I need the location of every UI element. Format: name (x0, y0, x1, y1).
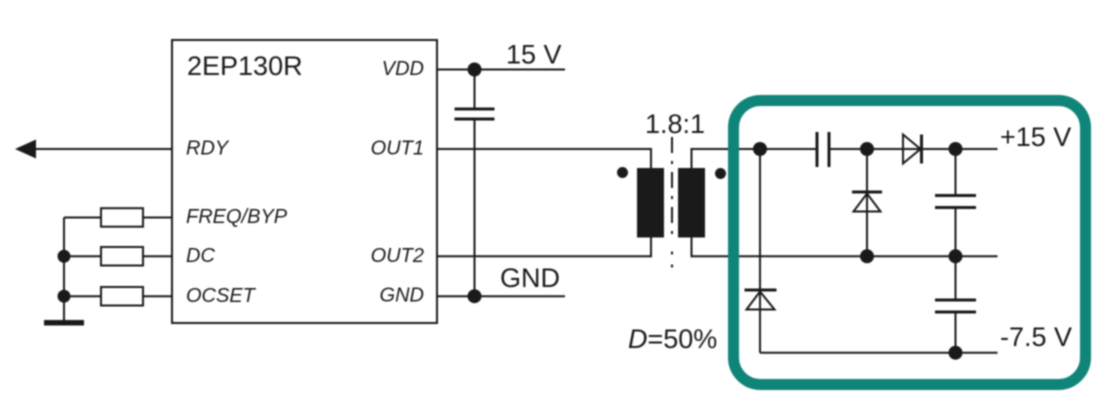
wire OCSET left (64, 295, 101, 297)
svg-text:1.8:1: 1.8:1 (645, 109, 705, 139)
junction dot OCSET-bus (58, 290, 71, 303)
wire OUT2 (437, 255, 651, 257)
wire OUT1 (437, 148, 651, 150)
transformer T1 primary top stub (650, 148, 652, 168)
transformer T1 primary winding (637, 168, 664, 238)
wire DC left (64, 255, 101, 257)
teal highlight rounded box (734, 101, 1086, 385)
wire left bus vertical (63, 218, 65, 323)
resistor R3 (OCSET) (101, 287, 143, 306)
svg-text:OUT1: OUT1 (371, 138, 424, 160)
transformer primary polarity dot (617, 167, 628, 178)
svg-text:DC: DC (186, 245, 215, 267)
transformer T1 primary bottom stub (650, 238, 652, 258)
resistor R1 (FREQ/BYP) (101, 208, 143, 227)
wire RDY output (33, 148, 172, 150)
ground symbol (44, 320, 84, 326)
wire shunt diode branch (through diode) (866, 149, 868, 256)
wire FREQ/BYP left (64, 217, 101, 219)
wire top rail segment 2 (through diode) (829, 148, 998, 150)
wire OCSET right (143, 295, 172, 297)
wire middle rail (692, 255, 998, 257)
svg-text:VDD: VDD (382, 58, 424, 80)
svg-text:15 V: 15 V (506, 40, 562, 70)
wire VDD to 15V (437, 69, 565, 71)
transformer core dash-dot line (671, 137, 673, 241)
capacitor C3 plates (935, 194, 976, 197)
capacitor C2 plates (series) (816, 132, 819, 167)
svg-text:D=50%: D=50% (628, 324, 717, 354)
IC U1 2EP130R box (172, 40, 437, 323)
svg-text:-7.5 V: -7.5 V (1000, 322, 1072, 352)
wire left branch vertical (through diode) (759, 149, 761, 353)
svg-text:+15 V: +15 V (1000, 122, 1071, 152)
wire capacitor C3 branch lower (955, 208, 957, 257)
wire capacitor C3 branch upper (955, 149, 957, 196)
svg-text:GND: GND (380, 285, 424, 307)
transformer T1 secondary top stub (691, 148, 693, 168)
junction dot top rail middle (860, 142, 874, 156)
wire FREQ/BYP right (143, 217, 172, 219)
capacitor C1 plates (455, 108, 495, 111)
junction dot VDD (468, 63, 482, 77)
svg-text:GND: GND (500, 263, 560, 293)
transformer T1 secondary winding (678, 168, 705, 238)
svg-text:OCSET: OCSET (186, 285, 257, 307)
wire C1 down to GND rail (474, 119, 476, 296)
junction dot DC-bus (58, 250, 71, 263)
diode D1 (series, rectifier) (903, 135, 921, 164)
resistor R2 (DC) (101, 247, 143, 266)
junction dot bottom rail (949, 346, 963, 360)
diode D3 (lower left, up) (745, 289, 777, 292)
arrowhead RDY (15, 140, 36, 159)
svg-text:FREQ/BYP: FREQ/BYP (186, 206, 288, 228)
wire capacitor C4 branch upper (955, 256, 957, 300)
wire bottom rail (760, 352, 998, 354)
junction dot GND (468, 289, 482, 303)
capacitor C4 plates (935, 299, 976, 302)
transformer secondary polarity dot (715, 168, 726, 179)
svg-text:OUT2: OUT2 (371, 245, 424, 267)
wire DC right (143, 255, 172, 257)
transformer T1 secondary bottom stub (691, 238, 693, 258)
diode D2 (shunt, up) (852, 191, 882, 194)
junction dot middle rail at D2 (860, 249, 874, 263)
junction dot top rail left (753, 142, 767, 156)
junction dot top rail right (949, 142, 963, 156)
junction dot middle rail at C3 (949, 249, 963, 263)
wire GND pin (437, 295, 565, 297)
wire secondary top rail segment 1 (692, 148, 818, 150)
wire VDD down to capacitor C1 (474, 70, 476, 110)
wire capacitor C4 branch lower (955, 312, 957, 353)
svg-text:2EP130R: 2EP130R (187, 51, 303, 81)
svg-text:RDY: RDY (186, 138, 230, 160)
